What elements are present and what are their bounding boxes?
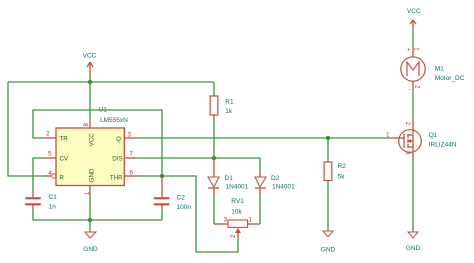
ground symbol (left) bbox=[83, 220, 98, 253]
svg-text:GND: GND bbox=[89, 168, 96, 182]
junction DIS node bbox=[212, 156, 216, 160]
svg-text:1n: 1n bbox=[49, 204, 57, 211]
wire DIS node bbox=[138, 157, 260, 159]
svg-text:DIS: DIS bbox=[112, 155, 122, 162]
wire VCC stub to top rail bbox=[89, 76, 91, 82]
svg-text:D1: D1 bbox=[225, 175, 234, 182]
svg-text:Q: Q bbox=[116, 136, 121, 143]
svg-text:C1: C1 bbox=[49, 194, 58, 201]
svg-text:C2: C2 bbox=[177, 195, 186, 202]
power flag VCC (left) bbox=[83, 53, 97, 77]
pin 6 THR (right) bbox=[110, 171, 138, 182]
svg-text:100n: 100n bbox=[177, 204, 192, 211]
svg-text:GND: GND bbox=[406, 245, 421, 252]
svg-text:Q1: Q1 bbox=[429, 132, 438, 139]
junction gnd rail bbox=[88, 218, 92, 222]
svg-text:LM555xN: LM555xN bbox=[100, 117, 128, 124]
svg-text:TR: TR bbox=[60, 136, 69, 143]
ground symbol (R2) bbox=[321, 231, 336, 253]
wire D1 to RV1 pin 3 bbox=[213, 196, 215, 224]
svg-text:GND: GND bbox=[321, 246, 336, 253]
svg-text:IRLIZ44N: IRLIZ44N bbox=[429, 141, 457, 148]
wire VCC rail to U1 pin 8 bbox=[89, 82, 91, 118]
wire TR to upper feedback rail bbox=[33, 110, 162, 176]
resistor R2 bbox=[324, 138, 346, 231]
svg-text:10k: 10k bbox=[231, 208, 242, 215]
svg-text:Motor_DC: Motor_DC bbox=[435, 75, 465, 82]
pin 5 CV (left) bbox=[45, 152, 69, 163]
motor M1 bbox=[401, 47, 465, 93]
svg-text:1N4001: 1N4001 bbox=[226, 183, 249, 190]
junction VCC rail bbox=[88, 80, 92, 84]
pin 1 GND (bottom) bbox=[85, 168, 96, 196]
capacitor C1 bbox=[25, 192, 57, 211]
pin 8 VCC (top) bbox=[84, 118, 95, 146]
svg-text:VCC: VCC bbox=[407, 8, 421, 15]
svg-text:R1: R1 bbox=[225, 99, 234, 106]
svg-text:D2: D2 bbox=[271, 175, 280, 182]
wire D2 to RV1 pin 1 bbox=[259, 196, 261, 224]
transistor Q1 IRLIZ44N bbox=[386, 122, 457, 160]
capacitor C2 bbox=[154, 176, 192, 211]
svg-text:VCC: VCC bbox=[83, 53, 97, 60]
pin 2 TR (left) bbox=[45, 132, 68, 143]
wire Q output to gate bbox=[138, 137, 390, 139]
power flag VCC (right) bbox=[407, 8, 421, 27]
svg-text:+: + bbox=[407, 48, 411, 54]
svg-text:RV1: RV1 bbox=[231, 198, 244, 205]
svg-text:VCC: VCC bbox=[89, 133, 96, 147]
wire VCC to motor bbox=[412, 27, 414, 48]
svg-text:R: R bbox=[60, 174, 65, 181]
junction THR node bbox=[160, 174, 164, 178]
svg-text:5k: 5k bbox=[338, 174, 346, 181]
svg-text:THR: THR bbox=[110, 174, 123, 181]
junction R2 tap bbox=[326, 136, 330, 140]
pin 7 DIS (right) bbox=[112, 152, 138, 163]
svg-text:CV: CV bbox=[60, 155, 69, 162]
wire THR to junction bbox=[138, 176, 238, 252]
svg-text:R2: R2 bbox=[338, 163, 347, 170]
wire C1 to gnd rail bbox=[33, 210, 162, 220]
svg-text:M1: M1 bbox=[435, 66, 444, 73]
svg-text:GND: GND bbox=[83, 246, 98, 253]
resistor R1 bbox=[210, 82, 234, 158]
wire top rail bbox=[8, 81, 214, 83]
wire C2 to gnd rail bbox=[161, 210, 163, 220]
svg-text:1k: 1k bbox=[225, 108, 233, 115]
potentiometer RV1 10k bbox=[214, 198, 260, 238]
diode D1 1N4001 bbox=[208, 158, 249, 196]
pin 3 Q (right) bbox=[116, 132, 138, 143]
wire Q1 source to ground bbox=[412, 160, 414, 232]
wire DIS corner down to D2 bbox=[259, 158, 261, 171]
svg-text:-: - bbox=[409, 87, 411, 93]
wire U1 pin1 to gnd rail bbox=[89, 196, 91, 220]
diode D2 1N4001 bbox=[255, 171, 295, 196]
pin 4 R (left, inverted) bbox=[45, 171, 65, 181]
ground symbol (right) bbox=[406, 232, 421, 252]
op-amp U1 body LM555xN bbox=[56, 107, 128, 186]
wire CV down to C1 bbox=[33, 158, 45, 192]
wire left drop to R pin bbox=[8, 82, 48, 176]
svg-text:1N4001: 1N4001 bbox=[272, 183, 295, 190]
wire motor to Q1 drain bbox=[412, 89, 414, 122]
